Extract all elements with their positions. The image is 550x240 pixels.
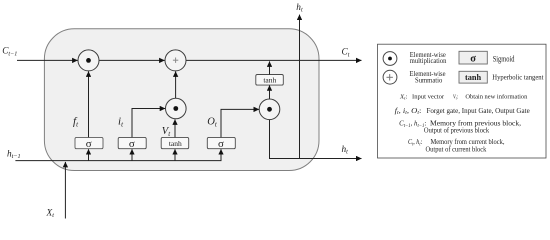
svg-text:Obtain new information: Obtain new information: [465, 94, 527, 101]
svg-text:σ: σ: [218, 138, 224, 150]
legend line gate definitions: [395, 106, 531, 116]
legend line X_t V_t definitions: [399, 94, 528, 101]
wire output gate to multiply node 3: [221, 109, 259, 137]
wire X_t input up into h bus: [64, 162, 66, 219]
legend text element-wise multiplication: [410, 50, 447, 65]
wire bus riser into forget gate: [88, 149, 90, 160]
svg-text:ht: ht: [296, 3, 303, 14]
output tanh box: [256, 75, 283, 86]
wire multiply node 3 up into output tanh box: [269, 85, 271, 99]
svg-text:σ: σ: [86, 138, 92, 150]
svg-text:Xt:: Xt:: [399, 95, 408, 101]
wire h_t riser up out of cell: [299, 15, 301, 159]
wire output tanh up into C line: [269, 61, 271, 74]
wire h bus with riser into output gate: [15, 149, 221, 160]
svg-text:σ: σ: [129, 138, 135, 150]
wire input gate to multiply node 2: [132, 109, 165, 138]
multiply node 3 (output gate x tanh(C)): [259, 99, 280, 120]
wire bus riser into candidate tanh: [174, 149, 176, 160]
output gate sigma box (O): [207, 137, 235, 150]
svg-text:ht−1: ht−1: [7, 149, 21, 160]
legend tanh box: [459, 71, 487, 83]
svg-text:tanh: tanh: [465, 73, 482, 82]
svg-text:Vt:: Vt:: [453, 95, 458, 101]
candidate tanh box (V): [161, 137, 189, 148]
input gate sigma box (i): [118, 137, 146, 150]
wire multiply node 2 up into sum node: [175, 71, 177, 98]
multiply node (element-wise multiplication on C line): [78, 50, 99, 71]
wire forget gate to multiply node: [88, 71, 90, 137]
svg-text:σ: σ: [470, 54, 476, 65]
legend line previous block definitions: [399, 119, 521, 135]
legend text element-wise summation: [410, 69, 447, 85]
wire C_{t-1} input into multiply node: [17, 59, 78, 61]
wire multiply node 3 down and right to h_t output: [270, 120, 362, 159]
svg-text:Hyperbolic tangent: Hyperbolic tangent: [492, 73, 544, 82]
wire bus riser into input gate: [131, 149, 133, 160]
wire sum node to C_t output: [186, 59, 361, 61]
svg-text:Ct, ht:: Ct, ht:: [408, 137, 422, 147]
svg-text:Sigmoid: Sigmoid: [493, 54, 515, 63]
wire candidate tanh to multiply node 2: [174, 119, 176, 137]
svg-text:Forget gate, Input Gate, Outpu: Forget gate, Input Gate, Output Gate: [427, 106, 531, 115]
legend sigma box: [459, 51, 487, 64]
svg-text:tanh: tanh: [169, 139, 182, 148]
sum node (element-wise summation): [165, 50, 186, 71]
svg-text:tanh: tanh: [263, 76, 276, 85]
wire multiply to sum node: [99, 59, 164, 61]
svg-text:Ct: Ct: [342, 48, 350, 59]
multiply node 2 (input gate x candidate): [166, 98, 187, 119]
LSTM cell body: [44, 29, 319, 171]
svg-text:Output of current block: Output of current block: [426, 145, 487, 154]
svg-text:Xt: Xt: [46, 208, 55, 219]
legend multiply symbol: [383, 52, 397, 66]
svg-text:Output of previous block: Output of previous block: [424, 126, 489, 135]
legend line current block definitions: [408, 137, 505, 154]
svg-text:Summatio: Summatio: [415, 76, 443, 85]
svg-text:Input vector: Input vector: [412, 95, 444, 101]
forget gate sigma box (f): [75, 137, 103, 150]
svg-text:Ct−1: Ct−1: [2, 47, 17, 58]
svg-text:ht: ht: [342, 145, 349, 156]
legend box: [378, 44, 547, 158]
svg-text:multiplication: multiplication: [410, 56, 447, 65]
legend sum symbol: [383, 70, 397, 84]
